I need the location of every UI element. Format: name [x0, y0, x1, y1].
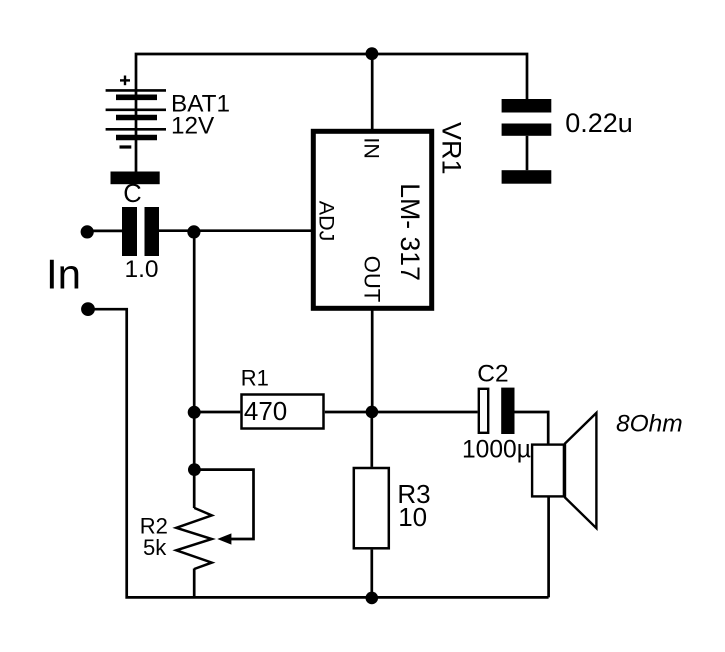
battery BAT1 plates	[106, 90, 166, 137]
wire OUT node to C2	[372, 411, 478, 414]
wire top rail from battery to 0.22u cap	[136, 54, 527, 172]
ground bar below 0.22u	[502, 170, 552, 184]
svg-text:C: C	[123, 180, 141, 208]
svg-text:R1: R1	[241, 366, 269, 391]
svg-text:VR1: VR1	[437, 122, 467, 175]
wire node to R1 left	[194, 411, 240, 414]
speaker LS1 box	[532, 445, 564, 497]
wire R2 bottom to rail	[193, 569, 196, 598]
battery plus sign	[120, 76, 130, 86]
svg-text:1.0: 1.0	[125, 256, 159, 283]
potentiometer R2 wiper arrowhead	[217, 533, 231, 544]
capacitor C plates (1.0)	[122, 207, 137, 256]
node dot R1 left	[188, 406, 201, 419]
wire IN pin drop from top rail to VR1 box	[371, 54, 374, 130]
wire R3 bottom to rail	[370, 550, 373, 598]
capacitor C2 negative plate (black)	[501, 388, 514, 434]
svg-text:C2: C2	[477, 361, 508, 388]
wire C2 to speaker corner	[515, 412, 549, 444]
node dot In terminal	[81, 302, 95, 316]
svg-text:IN: IN	[359, 137, 383, 159]
wire R1 right to OUT node	[325, 411, 372, 414]
svg-text:In: In	[46, 250, 81, 297]
svg-text:10: 10	[398, 502, 427, 532]
capacitor 0.22u plates	[502, 99, 552, 113]
node dot top rail	[366, 47, 379, 60]
node dot left terminal of C	[81, 225, 94, 238]
wire left terminal to cap C	[87, 230, 123, 233]
regulator VR1 box	[313, 131, 431, 308]
svg-text:OUT: OUT	[359, 256, 384, 302]
svg-text:12V: 12V	[171, 113, 215, 140]
svg-text:0.22u: 0.22u	[565, 108, 633, 138]
wire R2 wiper branch	[194, 470, 253, 539]
svg-text:ADJ: ADJ	[314, 201, 338, 242]
node dot right of C	[187, 225, 200, 238]
svg-text:5k: 5k	[143, 535, 167, 560]
svg-text:1000µ: 1000µ	[462, 436, 531, 463]
svg-text:8Ohm: 8Ohm	[616, 411, 683, 438]
node dot R2 top branch	[188, 463, 201, 476]
speaker LS1 cone	[565, 413, 596, 528]
capacitor C2 positive plate (outline)	[479, 389, 488, 433]
wire R3 top from OUT node	[370, 412, 373, 467]
wire 0.22u middle lead	[526, 136, 529, 170]
svg-text:470: 470	[244, 396, 287, 426]
wire center vertical from cap C node down to R2	[193, 232, 196, 508]
wire speaker bottom to rail	[547, 498, 550, 598]
node dot OUT junction	[366, 406, 379, 419]
wire In terminal to bottom-left corner and bottom rail	[88, 309, 549, 597]
potentiometer R2 zigzag	[176, 508, 212, 569]
wire ADJ from cap C node to VR1 box	[159, 229, 313, 232]
svg-text:LM- 317: LM- 317	[395, 183, 425, 281]
resistor R1 box	[242, 395, 324, 429]
node dot bottom rail right	[366, 592, 379, 605]
wire OUT pin from VR1 box down to node	[371, 309, 374, 413]
resistor R3 box	[354, 468, 389, 548]
battery minus sign	[120, 145, 132, 148]
ground bar below battery	[111, 172, 160, 185]
